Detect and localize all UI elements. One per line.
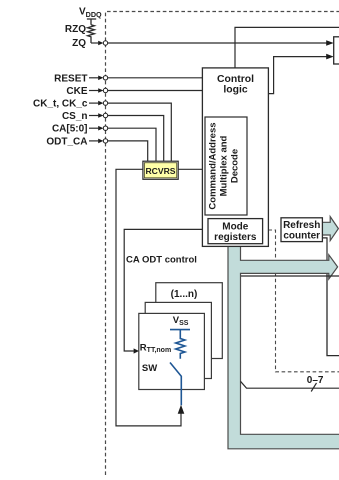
svg-text:CKE: CKE	[66, 86, 87, 97]
bus 0-7 line	[241, 381, 339, 388]
wire RCVRS right to command address block	[178, 168, 205, 170]
die boundary dashed outline	[106, 12, 339, 476]
svg-text:CA[5:0]: CA[5:0]	[52, 124, 88, 135]
node CS pad	[103, 113, 107, 117]
wire CA arrow	[89, 126, 103, 131]
wire RCVRS left to termination network	[116, 169, 181, 426]
VSS rail	[170, 329, 190, 331]
svg-text:ZQ: ZQ	[72, 38, 86, 49]
svg-text:RCVRS: RCVRS	[145, 166, 175, 176]
wire ZQ to pad	[91, 41, 103, 46]
node CKE pad	[103, 88, 107, 92]
control logic block	[202, 68, 268, 247]
wire CS arrow	[89, 113, 103, 118]
wire ODT_CA arrow	[89, 139, 103, 144]
wire ZQ to IO block	[108, 40, 334, 46]
svg-text:CK_t, CK_c: CK_t, CK_c	[33, 99, 88, 110]
svg-text:RZQ: RZQ	[65, 24, 86, 35]
wire teal bus to bank block	[241, 275, 328, 277]
wire refresh counter to bank block	[322, 238, 327, 276]
svg-text:Mode: Mode	[222, 222, 249, 233]
wire CK to RCVRS	[108, 103, 172, 161]
wire CKE arrow	[89, 88, 103, 93]
svg-text:Refresh: Refresh	[283, 220, 320, 231]
termination stack front box	[139, 313, 205, 389]
teal refresh counter arrow	[322, 217, 338, 241]
wire RESET arrow	[89, 76, 103, 81]
bus width slash	[311, 383, 316, 392]
wire ODT_CA to RCVRS	[108, 141, 148, 161]
wire CA to RCVRS	[108, 128, 156, 161]
svg-text:Multiplex and: Multiplex and	[219, 135, 230, 196]
svg-text:VDDQ: VDDQ	[79, 7, 102, 19]
wire RESET to control logic	[108, 77, 203, 79]
refresh counter block	[281, 218, 322, 242]
resistor RTT,nom (blue)	[176, 330, 185, 359]
wire control logic top to right edge	[235, 27, 339, 68]
node ZQ pad	[103, 41, 107, 45]
termination stack middle box	[145, 302, 211, 378]
node RESET pad	[103, 76, 107, 80]
resistor RZQ	[87, 19, 96, 43]
wire CKE to control logic	[108, 90, 203, 92]
wire CS to RCVRS	[108, 116, 164, 162]
teal data bus with branch arrow and bottom run	[228, 244, 339, 449]
svg-text:ODT_CA: ODT_CA	[46, 136, 87, 147]
termination stack back box (1...n)	[156, 283, 223, 359]
wire CA ODT control from control logic	[124, 229, 202, 353]
svg-text:Decode: Decode	[230, 149, 241, 183]
switch SW blade and lead	[170, 363, 181, 406]
arrow up into switch	[178, 405, 185, 414]
dashed wire control logic to right	[268, 230, 339, 372]
svg-text:logic: logic	[223, 84, 247, 95]
svg-text:Command/Address: Command/Address	[208, 122, 219, 209]
node CK pad	[103, 101, 107, 105]
command address multiplex and decode block	[205, 117, 247, 215]
bank block (cut off at bottom right)	[327, 276, 339, 356]
mode registers block	[208, 219, 263, 244]
RCVRS receiver block	[143, 161, 178, 179]
svg-text:(1...n): (1...n)	[171, 289, 198, 300]
svg-text:SW: SW	[142, 363, 157, 374]
wire CK arrow	[89, 101, 103, 106]
wire control logic to IO block	[268, 54, 333, 94]
svg-text:CS_n: CS_n	[62, 111, 88, 122]
node CA pad	[103, 126, 107, 130]
svg-text:0–7: 0–7	[307, 375, 324, 386]
svg-text:RESET: RESET	[54, 73, 87, 84]
svg-text:CA ODT control: CA ODT control	[126, 255, 197, 266]
node ODT_CA pad	[103, 139, 107, 143]
svg-text:counter: counter	[283, 231, 320, 242]
IO block (cut off at right edge)	[334, 37, 339, 64]
svg-text:registers: registers	[214, 232, 257, 243]
